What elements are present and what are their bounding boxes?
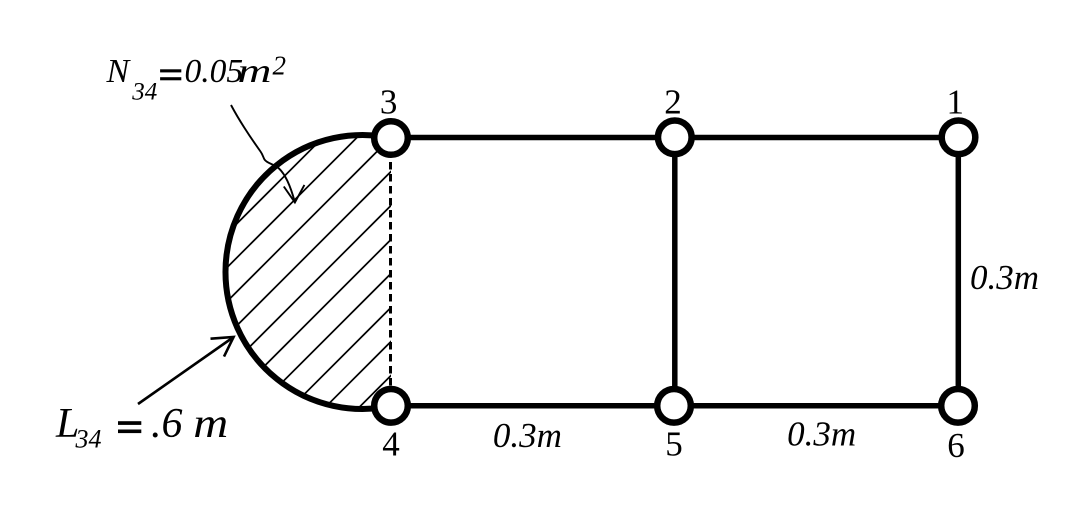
top edge: node 3 to node 2 to node 1 (391, 135, 959, 141)
leader curve with arrowhead for N34 label (231, 105, 295, 202)
svg-text:.6: .6 (151, 401, 183, 447)
svg-text:N: N (106, 53, 132, 90)
svg-text:34: 34 (75, 425, 102, 454)
vertical edge: node 1 to node 6 (956, 138, 962, 406)
svg-text:m: m (238, 53, 272, 90)
node 6 circle (941, 389, 975, 423)
svg-text:0.3m: 0.3m (787, 415, 856, 454)
svg-text:m: m (193, 401, 228, 447)
node 4 circle (374, 389, 408, 423)
vertical edge: node 2 to node 5 (672, 138, 678, 406)
svg-text:34: 34 (131, 78, 157, 105)
svg-text:1: 1 (946, 83, 964, 122)
curved boundary arc of element 3-4 (225, 135, 391, 409)
hatched area of curved element 3-4 (31, 80, 687, 430)
svg-text:0.3m: 0.3m (970, 258, 1039, 297)
label L34 = .6 m (55, 401, 228, 454)
dashed chord between node 3 and node 4 (389, 138, 392, 406)
node 1 circle (942, 121, 976, 155)
node 5 circle (657, 389, 691, 423)
label N34 = 0.05 m^2 (106, 51, 287, 106)
svg-text:0.05: 0.05 (185, 53, 244, 90)
svg-text:3: 3 (380, 83, 398, 122)
bottom edge: node 4 to node 5 to node 6 (391, 403, 958, 409)
svg-text:0.3m: 0.3m (493, 416, 562, 455)
node 2 circle (658, 121, 692, 155)
arrow for L34 label (138, 337, 234, 404)
svg-text:2: 2 (273, 51, 287, 81)
svg-text:2: 2 (664, 83, 682, 122)
svg-text:5: 5 (665, 425, 683, 464)
svg-text:4: 4 (382, 425, 400, 464)
node 3 circle (374, 121, 408, 155)
svg-text:6: 6 (947, 426, 965, 465)
